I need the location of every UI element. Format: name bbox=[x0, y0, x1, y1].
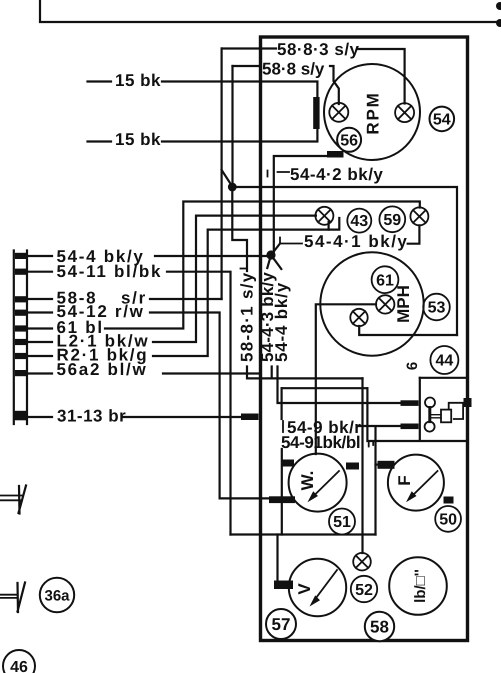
svg-text:6: 6 bbox=[404, 362, 421, 370]
svg-text:15 bk: 15 bk bbox=[115, 71, 161, 90]
svg-text:50: 50 bbox=[439, 511, 457, 528]
svg-text:57: 57 bbox=[272, 615, 291, 634]
svg-text:F: F bbox=[395, 475, 414, 485]
svg-text:lb/□'': lb/□'' bbox=[412, 569, 429, 603]
svg-text:61: 61 bbox=[376, 273, 394, 290]
svg-text:59: 59 bbox=[383, 212, 401, 229]
svg-text:43: 43 bbox=[350, 213, 368, 230]
svg-text:MPH: MPH bbox=[394, 285, 413, 323]
svg-text:58-8·1 s/y: 58-8·1 s/y bbox=[238, 272, 257, 363]
svg-text:31-13 br: 31-13 br bbox=[57, 407, 126, 426]
svg-text:54-4·1 bk/y: 54-4·1 bk/y bbox=[304, 232, 408, 251]
svg-text:56a2 bl/w: 56a2 bl/w bbox=[57, 360, 148, 379]
svg-text:54-91bk/bl: 54-91bk/bl bbox=[281, 433, 360, 452]
svg-text:54-4 bk/y: 54-4 bk/y bbox=[272, 282, 291, 362]
svg-text:W.: W. bbox=[298, 471, 317, 491]
svg-text:58·8 s/y: 58·8 s/y bbox=[262, 60, 325, 79]
svg-text:15 bk: 15 bk bbox=[115, 130, 161, 149]
svg-text:51: 51 bbox=[333, 514, 351, 531]
svg-text:44: 44 bbox=[436, 353, 454, 370]
svg-text:53: 53 bbox=[428, 300, 446, 317]
svg-text:58·8·3 s/y: 58·8·3 s/y bbox=[277, 40, 360, 59]
svg-text:54: 54 bbox=[433, 112, 451, 129]
svg-text:RPM: RPM bbox=[364, 91, 383, 134]
svg-text:52: 52 bbox=[355, 582, 373, 599]
svg-text:58: 58 bbox=[370, 618, 389, 637]
svg-text:54-11 bl/bk: 54-11 bl/bk bbox=[57, 262, 163, 281]
svg-text:46: 46 bbox=[10, 659, 28, 673]
svg-text:36a: 36a bbox=[44, 588, 70, 605]
svg-text:V: V bbox=[295, 583, 314, 595]
svg-text:56: 56 bbox=[340, 133, 358, 150]
svg-text:54-4·2 bk/y: 54-4·2 bk/y bbox=[290, 165, 383, 184]
